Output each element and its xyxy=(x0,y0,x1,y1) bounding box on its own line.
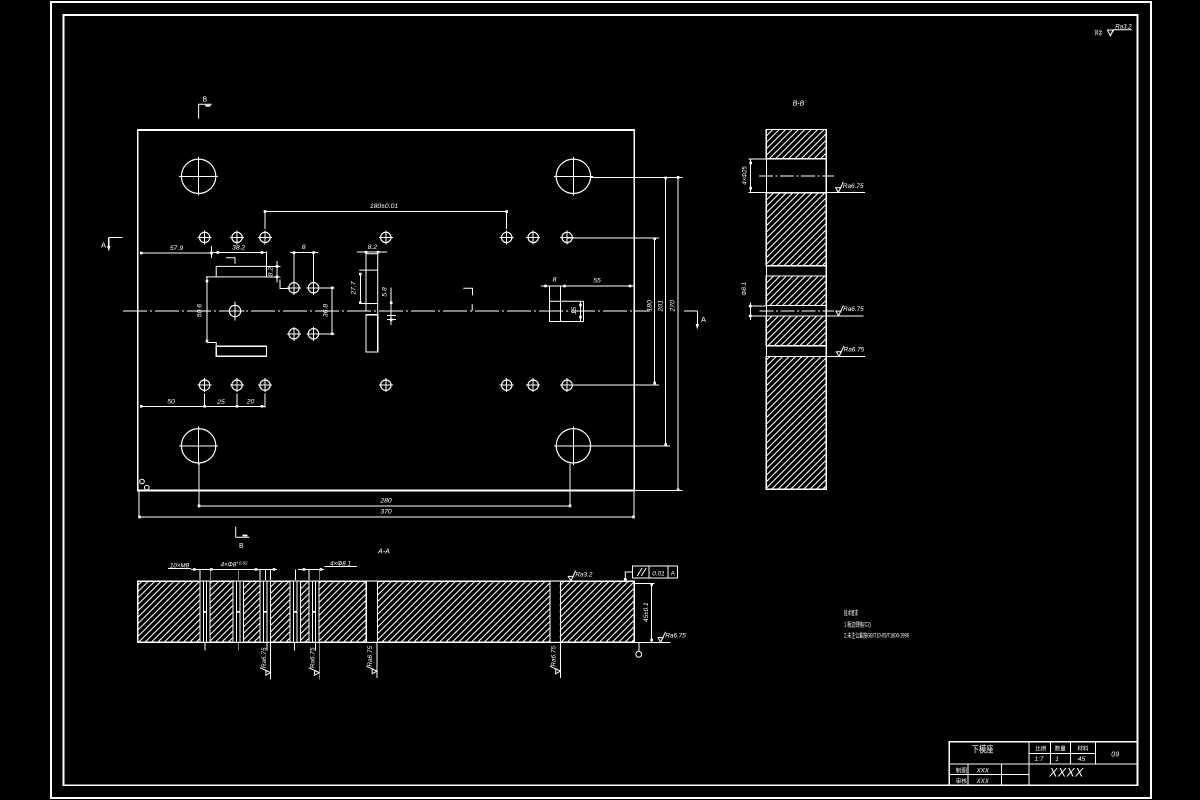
svg-text:36.8: 36.8 xyxy=(323,304,330,317)
svg-text:5.8: 5.8 xyxy=(382,287,389,297)
svg-text:50.6: 50.6 xyxy=(197,304,204,317)
svg-text:Ra6.75: Ra6.75 xyxy=(261,647,268,668)
svg-text:Ra6.75: Ra6.75 xyxy=(310,647,317,668)
svg-text:Ra3.2: Ra3.2 xyxy=(575,571,592,578)
svg-text:Ra6.75: Ra6.75 xyxy=(367,646,374,667)
svg-text:Ra6.75: Ra6.75 xyxy=(551,646,558,667)
svg-text:1: 1 xyxy=(1055,756,1059,763)
svg-text:B-B: B-B xyxy=(793,101,805,108)
svg-text:20: 20 xyxy=(246,399,255,406)
svg-text:27.7: 27.7 xyxy=(350,281,357,295)
svg-text:Ra6.75: Ra6.75 xyxy=(843,183,864,190)
svg-text:1:7: 1:7 xyxy=(1035,756,1044,763)
svg-text:25: 25 xyxy=(216,399,225,406)
svg-text:45±0.1: 45±0.1 xyxy=(643,602,650,622)
svg-text:Ra3.2: Ra3.2 xyxy=(1115,23,1132,30)
svg-text:下模座: 下模座 xyxy=(971,744,993,755)
svg-text:XXX: XXX xyxy=(976,768,990,775)
svg-text:270: 270 xyxy=(670,300,677,313)
svg-text:38.2: 38.2 xyxy=(232,245,245,252)
svg-text:B: B xyxy=(202,97,207,104)
svg-text:50: 50 xyxy=(167,398,175,405)
svg-text:XXX: XXX xyxy=(976,778,990,785)
svg-text:280: 280 xyxy=(379,498,392,505)
svg-text:0.01: 0.01 xyxy=(652,570,665,577)
svg-text:2.未注公差按GB/T10-05/T1800-1996: 2.未注公差按GB/T10-05/T1800-1996 xyxy=(844,630,909,640)
svg-text:技术要求: 技术要求 xyxy=(844,607,858,617)
svg-text:Φ8.1: Φ8.1 xyxy=(742,282,748,295)
svg-text:A: A xyxy=(671,570,676,577)
svg-text:8.2: 8.2 xyxy=(368,244,378,251)
svg-text:A: A xyxy=(701,315,706,324)
svg-text:材料: 材料 xyxy=(1077,745,1089,753)
svg-text:57.9: 57.9 xyxy=(170,245,183,252)
svg-text:A-A: A-A xyxy=(377,549,390,556)
svg-text:Ra6.75: Ra6.75 xyxy=(665,633,686,640)
svg-text:B: B xyxy=(239,543,244,550)
svg-text:201: 201 xyxy=(657,300,664,313)
svg-text:1.棱边倒钝(C2): 1.棱边倒钝(C2) xyxy=(844,619,871,629)
svg-text:XXXX: XXXX xyxy=(1048,766,1084,780)
svg-text:180±0.01: 180±0.01 xyxy=(370,203,399,210)
svg-text:比例: 比例 xyxy=(1035,745,1047,753)
svg-text:180: 180 xyxy=(646,300,653,312)
svg-text:数量: 数量 xyxy=(1055,745,1067,753)
svg-text:Ra6.75: Ra6.75 xyxy=(844,347,865,354)
svg-text:8.2: 8.2 xyxy=(268,267,275,277)
svg-text:45: 45 xyxy=(1078,756,1086,763)
svg-text:A: A xyxy=(101,241,106,250)
svg-text:09: 09 xyxy=(1111,752,1119,759)
svg-text:其余: 其余 xyxy=(1095,29,1103,37)
svg-text:制图: 制图 xyxy=(956,767,968,775)
svg-text:审核: 审核 xyxy=(956,777,968,785)
svg-text:55: 55 xyxy=(593,278,601,285)
svg-text:370: 370 xyxy=(380,509,392,516)
svg-text:4×Φ25: 4×Φ25 xyxy=(743,166,749,185)
svg-text:8: 8 xyxy=(302,244,306,251)
svg-text:8: 8 xyxy=(553,277,557,284)
svg-text:Ra6.75: Ra6.75 xyxy=(843,306,864,313)
svg-text:15: 15 xyxy=(571,307,578,315)
